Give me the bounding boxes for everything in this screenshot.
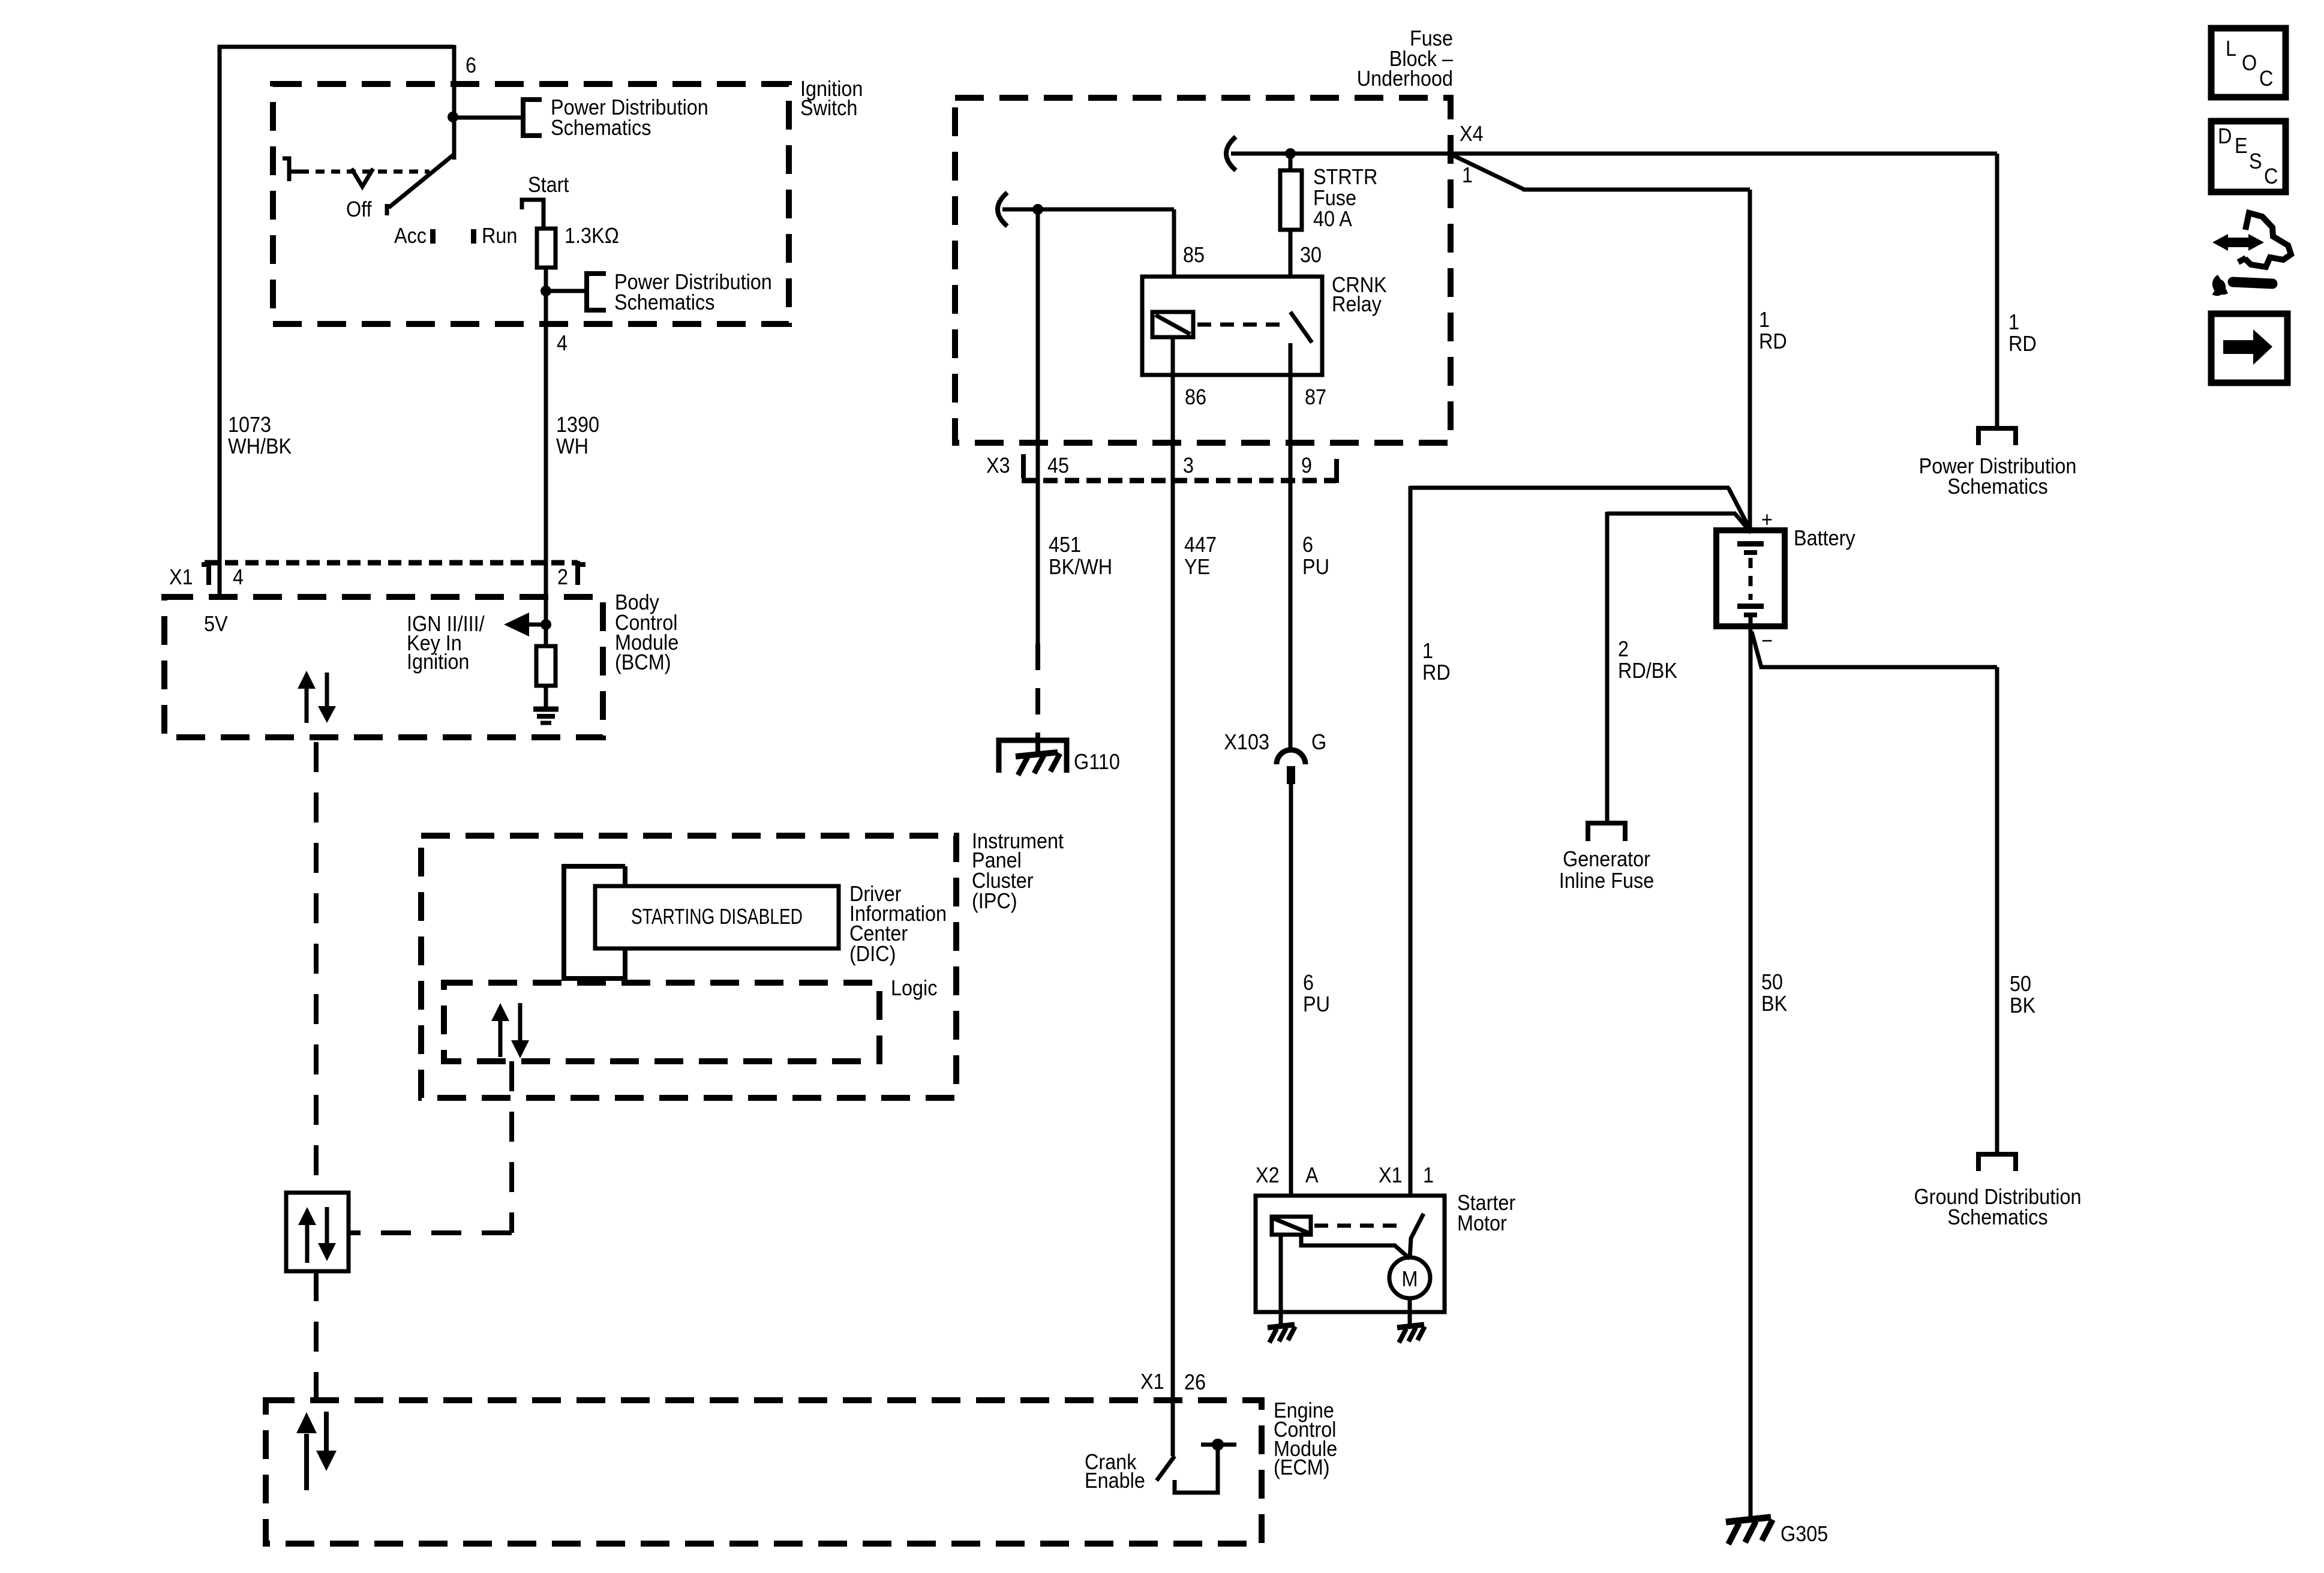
ground G305 chassis symbol xyxy=(1726,1517,1771,1522)
ground G110 chassis symbol xyxy=(1016,752,1058,757)
svg-text:50: 50 xyxy=(2010,972,2031,996)
IPC dashed box xyxy=(421,836,956,1098)
wire 451 dashed to G110 xyxy=(1035,644,1040,757)
svg-text:6: 6 xyxy=(1302,533,1313,557)
node junction dot 451 tap xyxy=(1032,204,1043,215)
svg-text:Logic: Logic xyxy=(891,976,937,1000)
wire resistor to ground xyxy=(544,686,548,708)
svg-text:6: 6 xyxy=(1303,971,1314,995)
bracket right X1 xyxy=(578,561,585,585)
svg-text:Acc: Acc xyxy=(394,224,427,248)
svg-text:Schematics: Schematics xyxy=(551,116,651,140)
svg-text:86: 86 xyxy=(1185,385,1206,409)
svg-text:PU: PU xyxy=(1302,555,1329,579)
crank enable contact bar xyxy=(1201,1443,1236,1447)
node junction dot below resistor xyxy=(541,286,551,296)
node junction dot STRTR fuse tap xyxy=(1285,148,1296,159)
svg-text:WH/BK: WH/BK xyxy=(228,434,292,458)
wire starter feed corner xyxy=(1410,486,1730,490)
off-page bracket ground distribution xyxy=(1978,1154,2016,1171)
svg-text:85: 85 xyxy=(1183,243,1205,267)
key dashed line xyxy=(300,170,430,174)
svg-text:(BCM): (BCM) xyxy=(615,650,671,674)
svg-text:Motor: Motor xyxy=(1457,1211,1507,1235)
svg-text:Underhood: Underhood xyxy=(1357,67,1453,91)
svg-text:(DIC): (DIC) xyxy=(849,942,896,966)
svg-text:Schematics: Schematics xyxy=(1947,1205,2047,1229)
node junction dot ignition pin6 branch xyxy=(448,112,458,122)
BCM dashed box xyxy=(164,597,603,737)
svg-text:E: E xyxy=(2235,134,2248,158)
nav icon hotlink double arrow xyxy=(2227,238,2251,247)
svg-text:50: 50 xyxy=(1761,970,1783,994)
resistor BCM xyxy=(536,646,556,686)
svg-text:−: − xyxy=(1761,629,1773,653)
svg-text:X3: X3 xyxy=(986,454,1010,478)
dashed serial wire gateway to ECM xyxy=(314,1271,319,1400)
svg-text:PU: PU xyxy=(1303,992,1330,1016)
svg-text:STARTING DISABLED: STARTING DISABLED xyxy=(631,905,803,929)
connector X1 dotted row BCM xyxy=(205,560,578,566)
ground starter motor chassis xyxy=(1397,1325,1424,1328)
start contact hook wire xyxy=(522,200,544,229)
battery box xyxy=(1716,530,1785,626)
svg-text:D: D xyxy=(2218,124,2232,148)
svg-text:1: 1 xyxy=(1759,308,1770,332)
svg-text:Battery: Battery xyxy=(1794,526,1855,550)
svg-text:1: 1 xyxy=(1462,163,1473,187)
battery plate long top xyxy=(1737,541,1764,547)
svg-text:RD: RD xyxy=(1422,661,1451,685)
fuse block underhood dashed box xyxy=(955,98,1451,443)
battery plate long bottom xyxy=(1737,604,1764,609)
svg-text:5V: 5V xyxy=(204,612,228,636)
nav icon hotlink outline xyxy=(2238,213,2291,267)
wire IGN arrow line xyxy=(509,623,546,627)
wire ground distribution horizontal xyxy=(1759,665,1997,670)
svg-text:26: 26 xyxy=(1184,1370,1206,1394)
DIC display rect xyxy=(595,886,839,948)
svg-text:451: 451 xyxy=(1049,533,1081,557)
svg-text:X103: X103 xyxy=(1224,730,1269,754)
svg-text:WH: WH xyxy=(556,434,588,458)
dashed serial wire horizontal to gateway xyxy=(349,1230,512,1235)
svg-text:30: 30 xyxy=(1300,243,1322,267)
svg-text:4: 4 xyxy=(557,331,568,355)
wire 6 PU to starter xyxy=(1289,784,1293,1217)
off-page bracket PDS right xyxy=(1978,428,2016,445)
svg-text:BK: BK xyxy=(1761,992,1787,1016)
wire 451 BK/WH solid xyxy=(1036,209,1040,644)
wire horizontal to battery vertical xyxy=(1523,188,1750,192)
wire diagonal battery minus branch xyxy=(1752,632,1761,667)
wire battery positive vertical xyxy=(1748,190,1752,532)
node junction dot crank enable xyxy=(1212,1439,1224,1451)
bracket right X3 xyxy=(1329,459,1337,483)
relay dashed actuator link xyxy=(1197,323,1284,327)
arrow up gateway xyxy=(305,1223,310,1263)
curl wire-start relay85 feed xyxy=(998,193,1007,226)
svg-text:Relay: Relay xyxy=(1332,292,1382,316)
ECM dashed box xyxy=(266,1400,1262,1544)
arrowhead IGN pointing left xyxy=(504,613,529,637)
svg-text:+: + xyxy=(1761,508,1773,532)
svg-text:Switch: Switch xyxy=(800,96,857,120)
wire down to relay pin85 xyxy=(1172,209,1176,312)
wire 447 YE relay pin86 down to ECM xyxy=(1171,337,1175,1456)
bracket left X1 xyxy=(202,561,209,585)
ground starter solenoid chassis xyxy=(1268,1325,1295,1328)
starter motor box xyxy=(1256,1196,1445,1312)
svg-text:RD: RD xyxy=(2008,332,2037,356)
curl wire-start X4 xyxy=(1226,137,1236,170)
wire X4 main horizontal battery feed xyxy=(1231,152,1997,156)
starter motor M circle xyxy=(1389,1257,1430,1298)
svg-text:Inline Fuse: Inline Fuse xyxy=(1559,869,1654,893)
svg-text:X1: X1 xyxy=(1379,1163,1403,1187)
tick Acc xyxy=(430,229,436,244)
fuse STRTR 40A xyxy=(1280,170,1302,230)
relay CRNK box xyxy=(1142,277,1322,375)
svg-text:G305: G305 xyxy=(1780,1522,1828,1546)
svg-text:447: 447 xyxy=(1184,533,1217,557)
wire ignition pin 6 vertical xyxy=(452,45,457,160)
off-page connector bracket PDS 2 xyxy=(587,274,606,310)
key V notch xyxy=(352,169,373,187)
wire 2 RD/BK down xyxy=(1605,512,1610,821)
svg-text:1073: 1073 xyxy=(228,413,271,437)
arrow up ECM serial xyxy=(304,1434,309,1490)
wire top horizontal from X1-4 to ignition pin 6 xyxy=(218,45,454,49)
svg-text:Ignition: Ignition xyxy=(407,650,469,674)
nav icon arrow box xyxy=(2211,314,2287,383)
arrow down logic xyxy=(518,1003,523,1043)
battery plate short bottom xyxy=(1744,613,1757,617)
svg-text:A: A xyxy=(1305,1163,1319,1187)
svg-text:(IPC): (IPC) xyxy=(972,889,1017,913)
wire relay85 horizontal xyxy=(1002,208,1174,212)
wire X4 right vertical to PDS xyxy=(1995,154,1999,427)
svg-text:RD: RD xyxy=(1759,329,1787,353)
nav icon hotlink wrench xyxy=(2233,282,2272,284)
svg-text:RD/BK: RD/BK xyxy=(1618,659,1677,683)
svg-text:45: 45 xyxy=(1047,454,1069,478)
svg-text:87: 87 xyxy=(1305,385,1326,409)
svg-text:X1: X1 xyxy=(169,565,193,589)
arrow up BCM serial xyxy=(305,686,309,723)
svg-text:6: 6 xyxy=(466,53,476,77)
svg-text:Fuse: Fuse xyxy=(1313,186,1356,210)
svg-text:1390: 1390 xyxy=(556,413,599,437)
svg-text:O: O xyxy=(2242,51,2257,75)
switch blade ignition xyxy=(389,155,454,208)
arrow down ECM serial xyxy=(324,1412,329,1452)
arrow down gateway xyxy=(325,1207,329,1245)
wire branch to power distribution connector xyxy=(452,116,521,120)
svg-text:G: G xyxy=(1311,730,1326,754)
svg-text:Start: Start xyxy=(528,173,569,197)
svg-text:40 A: 40 A xyxy=(1313,207,1352,231)
dashed serial wire logic down xyxy=(509,1061,514,1233)
dashed serial data wire BCM down xyxy=(314,742,319,1193)
wire fuse to relay pin30 xyxy=(1289,230,1293,312)
svg-text:C: C xyxy=(2259,67,2273,91)
wire left vertical 1073 WH/BK xyxy=(218,45,222,597)
svg-text:Enable: Enable xyxy=(1085,1469,1145,1493)
key hook symbol xyxy=(283,158,300,181)
svg-text:9: 9 xyxy=(1301,454,1312,478)
svg-text:X2: X2 xyxy=(1256,1163,1280,1187)
svg-text:G110: G110 xyxy=(1074,750,1120,774)
svg-text:1.3KΩ: 1.3KΩ xyxy=(565,224,619,248)
svg-text:Generator: Generator xyxy=(1563,847,1650,871)
resistor ignition 1.3K xyxy=(537,229,556,268)
tick Run xyxy=(471,229,476,244)
battery dashed center xyxy=(1749,558,1753,600)
svg-text:Schematics: Schematics xyxy=(1947,475,2047,499)
wire solenoid right leg to motor xyxy=(1301,1235,1410,1259)
battery plate short top xyxy=(1744,550,1757,555)
starter solenoid coil xyxy=(1272,1217,1311,1235)
svg-text:BK/WH: BK/WH xyxy=(1049,555,1112,579)
svg-text:M: M xyxy=(1402,1267,1418,1291)
svg-text:2: 2 xyxy=(1618,637,1629,661)
ground G110 bracket xyxy=(999,740,1067,773)
wire diagonal from X4 to battery feed xyxy=(1451,154,1524,190)
bracket left X3 xyxy=(1023,454,1031,481)
svg-text:X1: X1 xyxy=(1140,1370,1164,1394)
starter dashed actuator link xyxy=(1314,1224,1400,1228)
svg-text:4: 4 xyxy=(233,565,244,589)
crank enable contact hook xyxy=(1175,1448,1218,1493)
connector X3 dotted row xyxy=(1022,478,1337,484)
arrow down BCM serial xyxy=(325,673,329,707)
svg-text:Schematics: Schematics xyxy=(614,290,714,314)
svg-text:L: L xyxy=(2226,37,2236,61)
svg-text:STRTR: STRTR xyxy=(1313,165,1377,189)
connector X103 arc xyxy=(1277,750,1305,764)
svg-text:BK: BK xyxy=(2010,993,2035,1017)
wire into STRTR fuse xyxy=(1289,154,1293,170)
logic dashed box xyxy=(444,983,879,1061)
off contact tick xyxy=(385,204,389,215)
ground IEC earth in BCM xyxy=(533,707,559,712)
relay switch blade xyxy=(1290,312,1312,343)
wire junction to resistor xyxy=(544,597,548,646)
relay coil CRNK xyxy=(1152,312,1193,337)
svg-text:C: C xyxy=(2264,164,2278,188)
wire branch to PDS connector 2 xyxy=(546,289,585,293)
svg-text:S: S xyxy=(2249,149,2262,173)
svg-text:X4: X4 xyxy=(1460,122,1484,146)
nav icon LOC box xyxy=(2211,28,2286,97)
DIC bracket xyxy=(564,866,625,978)
svg-text:2: 2 xyxy=(557,565,568,589)
nav icon DESC box xyxy=(2211,121,2286,192)
svg-text:1: 1 xyxy=(2008,310,2019,334)
svg-text:3: 3 xyxy=(1183,454,1194,478)
crank enable switch blade xyxy=(1157,1456,1175,1481)
arrow up logic xyxy=(499,1019,503,1057)
wire generator fuse corner xyxy=(1607,512,1736,516)
off-page bracket generator inline fuse xyxy=(1588,823,1625,841)
wire 50 BK right vertical xyxy=(1995,667,1999,1153)
svg-text:YE: YE xyxy=(1184,555,1210,579)
starter switch blade xyxy=(1410,1214,1424,1259)
wire below resistor to BCM xyxy=(544,268,548,597)
svg-text:1: 1 xyxy=(1422,639,1433,663)
svg-text:(ECM): (ECM) xyxy=(1274,1455,1330,1479)
ignition switch dashed box xyxy=(273,84,789,324)
wire 1 RD to starter X1-1 xyxy=(1409,486,1413,1206)
wire battery negative down to G305 xyxy=(1749,617,1753,1523)
connector X103 pin stub xyxy=(1287,766,1295,784)
serial gateway box xyxy=(286,1193,349,1271)
svg-text:Run: Run xyxy=(482,224,517,248)
wire solenoid left leg to ground xyxy=(1279,1235,1283,1326)
svg-text:1: 1 xyxy=(1423,1163,1434,1187)
off-page connector bracket PDS top xyxy=(523,100,542,136)
node junction dot IGN branch xyxy=(541,619,551,630)
svg-text:Off: Off xyxy=(346,197,372,221)
wire 6 PU relay pin87 down to X103 xyxy=(1289,343,1293,752)
wire motor bottom to ground xyxy=(1408,1298,1412,1326)
